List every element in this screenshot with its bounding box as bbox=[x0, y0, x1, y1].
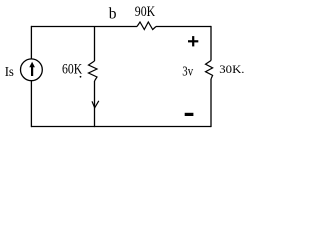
wire right vertical lower (30K to bottom rail) bbox=[210, 79, 212, 127]
label 60K trailing dot bbox=[80, 76, 82, 78]
polarity minus sign bbox=[185, 113, 194, 116]
svg-text:3v: 3v bbox=[182, 64, 193, 79]
wire node b branch upper bbox=[94, 27, 96, 62]
wire left vertical upper (corner to current source) bbox=[30, 26, 32, 59]
svg-text:30K.: 30K. bbox=[219, 62, 244, 76]
current direction arrowhead (down) on 60K branch bbox=[92, 101, 99, 108]
wire top-right horizontal segment bbox=[156, 26, 211, 28]
resistor R 90K (horizontal zigzag) bbox=[137, 22, 156, 30]
svg-text:Is: Is bbox=[5, 64, 14, 79]
current source arrow (up) bbox=[29, 62, 35, 76]
svg-text:b: b bbox=[109, 5, 117, 22]
svg-text:90K: 90K bbox=[135, 4, 156, 20]
wire top-left horizontal segment bbox=[31, 26, 137, 28]
wire left vertical lower (current source to bottom rail) bbox=[30, 81, 32, 127]
wire right vertical upper (corner to 30K) bbox=[210, 26, 212, 61]
resistor R 30K (vertical zigzag) bbox=[206, 61, 213, 80]
resistor R 60K (vertical zigzag) bbox=[89, 61, 98, 81]
wire node b branch lower bbox=[94, 81, 96, 127]
wire bottom rail bbox=[31, 126, 211, 128]
svg-text:60K: 60K bbox=[62, 62, 82, 78]
polarity plus sign bbox=[188, 36, 198, 46]
current source Is (circle) bbox=[21, 59, 43, 81]
